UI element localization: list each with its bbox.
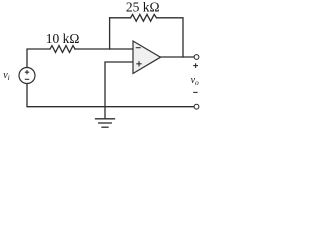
svg-text:25 kΩ: 25 kΩ: [126, 0, 160, 14]
svg-text:10 kΩ: 10 kΩ: [46, 31, 80, 46]
